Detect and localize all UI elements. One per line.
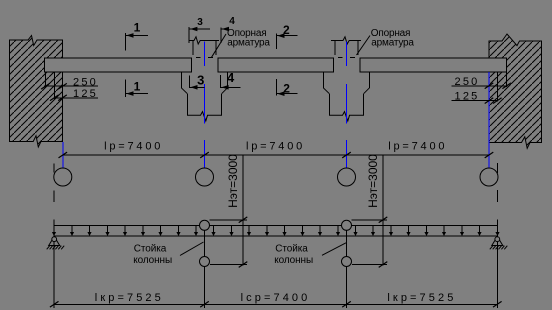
svg-text:2: 2 — [283, 23, 290, 37]
svg-text:4: 4 — [229, 16, 235, 27]
beam 3 (right girder) — [360, 58, 507, 72]
leader line to joint 2 — [357, 36, 371, 56]
storey height dim Нэт=3000 (2) — [352, 154, 388, 268]
column 2 (middle-right column with corbels) — [323, 37, 369, 121]
svg-text:колонны: колонны — [133, 255, 172, 266]
column strut 1 with hinges — [200, 220, 210, 308]
svg-text:Стойка: Стойка — [134, 243, 167, 254]
schematic beam line — [54, 235, 497, 237]
svg-text:250: 250 — [455, 76, 480, 88]
svg-text:1: 1 — [134, 80, 141, 94]
svg-text:Нэт=3000: Нэт=3000 — [226, 154, 240, 208]
dashed extension left support — [53, 164, 55, 173]
section mark 1-1 top — [125, 21, 148, 51]
leader to strut 2 — [322, 243, 346, 256]
section mark 2-2 bottom — [276, 79, 297, 96]
section mark 3-3 bottom — [189, 73, 204, 90]
axis line C (column 2, blue) — [346, 42, 348, 169]
svg-text:lкр=7525: lкр=7525 — [95, 292, 164, 304]
section mark 3-3 top — [189, 17, 210, 43]
svg-text:lр=7400: lр=7400 — [104, 141, 163, 153]
section mark 1-1 bottom — [125, 80, 148, 98]
section mark 2-2 top — [276, 23, 297, 49]
svg-text:1: 1 — [134, 21, 141, 35]
svg-text:lр=7400: lр=7400 — [388, 141, 447, 153]
axis line D (right wall, blue) — [488, 72, 490, 143]
axis bubble A — [54, 168, 72, 186]
beam 1 (left girder) — [45, 58, 192, 72]
beam 2 (middle girder) — [218, 58, 333, 72]
svg-text:колонны: колонны — [274, 255, 313, 266]
svg-text:Стойка: Стойка — [275, 243, 308, 254]
pinned support right — [490, 220, 508, 309]
bearing dimensions 250/125 left — [41, 72, 98, 101]
dimension line lр row — [59, 152, 494, 158]
leader to strut 1 — [180, 242, 204, 256]
axis bubble C — [338, 168, 356, 186]
svg-text:3: 3 — [197, 17, 203, 28]
svg-text:3: 3 — [197, 73, 204, 88]
axis bubble D — [480, 168, 498, 186]
bottom dimension line — [50, 301, 502, 307]
left brick wall (hatched) — [10, 36, 63, 148]
leader line to joint 1 — [212, 34, 227, 57]
svg-text:Нэт=3000: Нэт=3000 — [366, 154, 380, 208]
svg-text:4: 4 — [227, 70, 235, 85]
distributed load arrows — [52, 225, 500, 236]
svg-text:2: 2 — [283, 82, 290, 96]
column 1 (middle-left column with corbels) — [181, 37, 227, 121]
svg-text:lср=7400: lср=7400 — [241, 292, 311, 304]
axis line B (column 1, blue) — [204, 42, 206, 169]
column strut 2 with hinges — [342, 220, 352, 308]
section mark 4-4 bottom — [220, 70, 240, 90]
svg-text:арматура: арматура — [227, 38, 270, 49]
section mark 4-4 top — [221, 16, 235, 43]
svg-text:250: 250 — [73, 76, 98, 88]
bearing dimensions 250/125 right — [452, 72, 511, 103]
distributed load top line — [54, 224, 497, 226]
svg-text:lкр=7525: lкр=7525 — [387, 292, 456, 304]
dashed extension right support — [496, 163, 498, 173]
pinned support left — [47, 220, 64, 309]
axis line A (left wall, blue) — [62, 142, 64, 168]
storey height dim Нэт=3000 (1) — [210, 154, 248, 268]
svg-text:арматура: арматура — [371, 38, 414, 49]
svg-text:lр=7400: lр=7400 — [246, 141, 305, 153]
right brick wall (hatched) — [489, 34, 542, 148]
svg-text:125: 125 — [455, 91, 480, 103]
svg-text:125: 125 — [73, 88, 98, 100]
axis bubble B — [196, 168, 214, 186]
